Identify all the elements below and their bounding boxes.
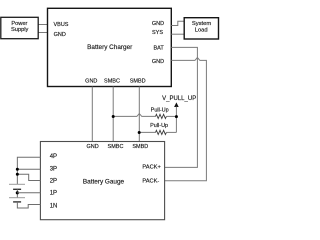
svg-text:Supply: Supply (11, 27, 29, 33)
power supply box PS1 (1, 17, 38, 38)
svg-text:Pull-Up: Pull-Up (151, 107, 169, 113)
svg-text:SMBD: SMBD (132, 144, 148, 150)
svg-text:3P: 3P (50, 166, 57, 172)
wire GND charger to system load (stepped) (171, 21, 184, 25)
svg-text:BAT: BAT (154, 46, 165, 52)
wire SYS charger to system load (171, 33, 184, 35)
svg-text:Pull-Up: Pull-Up (150, 123, 168, 129)
svg-text:GND: GND (54, 32, 66, 38)
wire 3P (17, 168, 40, 170)
svg-text:PACK-: PACK- (142, 178, 159, 184)
wire GND: Power Supply to Battery Charger (38, 32, 47, 34)
junction dot SMBD/R2 (138, 131, 141, 134)
svg-text:1N: 1N (50, 203, 58, 209)
svg-text:1P: 1P (50, 191, 57, 197)
svg-text:GND: GND (86, 144, 98, 150)
svg-text:GND: GND (85, 79, 97, 85)
wire 1P (17, 192, 40, 194)
svg-text:VBUS: VBUS (54, 22, 69, 28)
wire B1 to B2 (16, 189, 18, 197)
wire 1N stepped (17, 202, 40, 208)
battery cell B2 positive plate (9, 197, 25, 199)
svg-text:Load: Load (195, 27, 208, 33)
svg-text:GND: GND (152, 59, 164, 65)
battery cell B2 negative plate (13, 201, 21, 203)
svg-text:SMBC: SMBC (104, 79, 120, 85)
wire VBUS: Power Supply to Battery Charger (38, 24, 47, 26)
battery cell B1 positive plate (9, 183, 25, 185)
battery cell B1 negative plate (13, 188, 21, 190)
svg-text:GND: GND (152, 21, 164, 27)
junction dot R1/V_PULL_UP (175, 115, 178, 118)
V_PULL_UP arrow (174, 102, 179, 107)
svg-text:4P: 4P (50, 154, 57, 160)
junction dot SMBC/R1 (112, 115, 115, 118)
svg-text:Battery Gauge: Battery Gauge (83, 178, 125, 185)
wire V_PULL_UP vertical (175, 107, 177, 133)
system load box (184, 18, 218, 39)
svg-text:SYS: SYS (152, 30, 163, 36)
svg-text:V_PULL_UP: V_PULL_UP (162, 96, 196, 102)
junction dot 1P (16, 191, 19, 194)
svg-text:System: System (192, 21, 211, 27)
resistor R1 Pull-Up (SMBC) (113, 107, 176, 118)
svg-text:Battery Charger: Battery Charger (87, 44, 133, 51)
wire SMBD charger to gauge (138, 87, 140, 142)
wire 2P stepped (17, 174, 40, 180)
wire SMBC charger to gauge (112, 87, 114, 142)
svg-text:SMBD: SMBD (130, 79, 146, 85)
battery gauge U2 (40, 142, 164, 220)
wire GND charger to gauge (91, 87, 93, 142)
wire BAT to PACK+ (165, 47, 198, 167)
svg-text:2P: 2P (50, 178, 57, 184)
svg-text:SMBC: SMBC (108, 144, 124, 150)
resistor R2 Pull-Up (SMBD) (139, 123, 176, 135)
battery charger U1 (48, 8, 172, 86)
junction dot 3P (16, 168, 19, 171)
wire GND to PACK- with hop over BAT line (165, 58, 207, 181)
wire 4P (17, 157, 40, 184)
junction dot 2P (16, 173, 19, 176)
svg-text:PACK+: PACK+ (142, 165, 161, 171)
